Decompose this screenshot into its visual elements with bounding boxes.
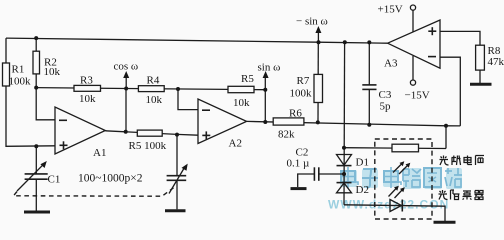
svg-text:R7: R7 [297, 75, 310, 87]
svg-text:10k: 10k [146, 94, 163, 106]
svg-text:100~1000p×2: 100~1000p×2 [78, 173, 143, 185]
svg-text:cos ω: cos ω [114, 61, 139, 73]
svg-text:5p: 5p [380, 101, 392, 113]
svg-text:A2: A2 [229, 138, 242, 150]
svg-text:C3: C3 [379, 89, 392, 101]
svg-text:R3: R3 [80, 75, 93, 87]
svg-text:D2: D2 [356, 184, 369, 196]
svg-text:10k: 10k [44, 66, 61, 78]
svg-text:0.1 µ: 0.1 µ [287, 158, 310, 170]
svg-text:R5 100k: R5 100k [129, 140, 167, 152]
svg-text:R1: R1 [12, 64, 25, 76]
svg-text:47k: 47k [488, 56, 504, 68]
svg-text:100k: 100k [290, 88, 313, 100]
svg-text:10k: 10k [233, 97, 250, 109]
svg-text:D1: D1 [356, 157, 369, 169]
svg-text:− sin ω: − sin ω [296, 16, 328, 28]
svg-text:100k: 100k [9, 76, 32, 88]
svg-text:R5: R5 [241, 73, 254, 85]
svg-text:−15V: −15V [405, 90, 430, 102]
svg-text:82k: 82k [278, 129, 295, 141]
svg-text:sin ω: sin ω [258, 62, 281, 74]
svg-text:R4: R4 [147, 75, 160, 87]
svg-text:R6: R6 [289, 108, 302, 120]
svg-text:C1: C1 [48, 174, 61, 186]
svg-text:A1: A1 [93, 147, 106, 159]
svg-text:+15V: +15V [378, 4, 403, 16]
svg-text:10k: 10k [79, 93, 96, 105]
svg-text:A3: A3 [384, 58, 398, 70]
